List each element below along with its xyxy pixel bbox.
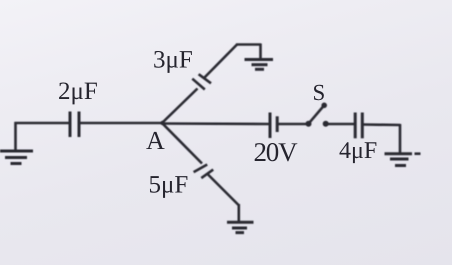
wire top horizontal to top ground [236, 43, 261, 46]
switch S right contact dot [323, 121, 329, 127]
ground bottom [227, 222, 254, 232]
wire C2 up to top corner [205, 45, 238, 78]
switch S lever tip dot [321, 103, 327, 109]
wire bottom ground riser [238, 204, 241, 222]
capacitor C4 4uF plates [355, 113, 362, 139]
svg-text:A: A [146, 126, 165, 155]
wire battery to switch left contact [278, 123, 306, 126]
wire C4 to right corner [363, 123, 401, 126]
svg-text:4μF: 4μF [339, 138, 377, 164]
wire diagonal A down to C3 [162, 123, 202, 164]
wire right ground riser [399, 124, 402, 153]
ground right [385, 154, 421, 166]
battery V1 20V plates [270, 113, 277, 139]
wire node A to battery left plate [162, 122, 269, 125]
ground top [245, 60, 274, 70]
svg-text:S: S [313, 80, 326, 105]
wire left ground riser [14, 122, 17, 150]
ground left [0, 151, 33, 164]
capacitor C1 2uF plates [70, 112, 79, 138]
svg-text:5μF: 5μF [149, 172, 189, 199]
switch S lever [309, 106, 325, 124]
capacitor C3 5uF plates [194, 165, 214, 179]
node A junction [160, 121, 164, 125]
svg-text:20V: 20V [254, 137, 299, 167]
svg-text:2μF: 2μF [58, 78, 98, 105]
wire C3 down to bottom corner [208, 175, 239, 206]
wire left horizontal from left ground riser to C1 left plate [15, 122, 70, 125]
capacitor C2 3uF plates [192, 74, 211, 89]
wire C1 to node A [80, 122, 163, 125]
wire switch to C4 [327, 123, 354, 126]
wire diagonal A up to C2 [162, 89, 198, 124]
wire top ground riser [259, 44, 262, 60]
switch S left contact dot [306, 121, 312, 127]
svg-text:3μF: 3μF [153, 47, 193, 74]
